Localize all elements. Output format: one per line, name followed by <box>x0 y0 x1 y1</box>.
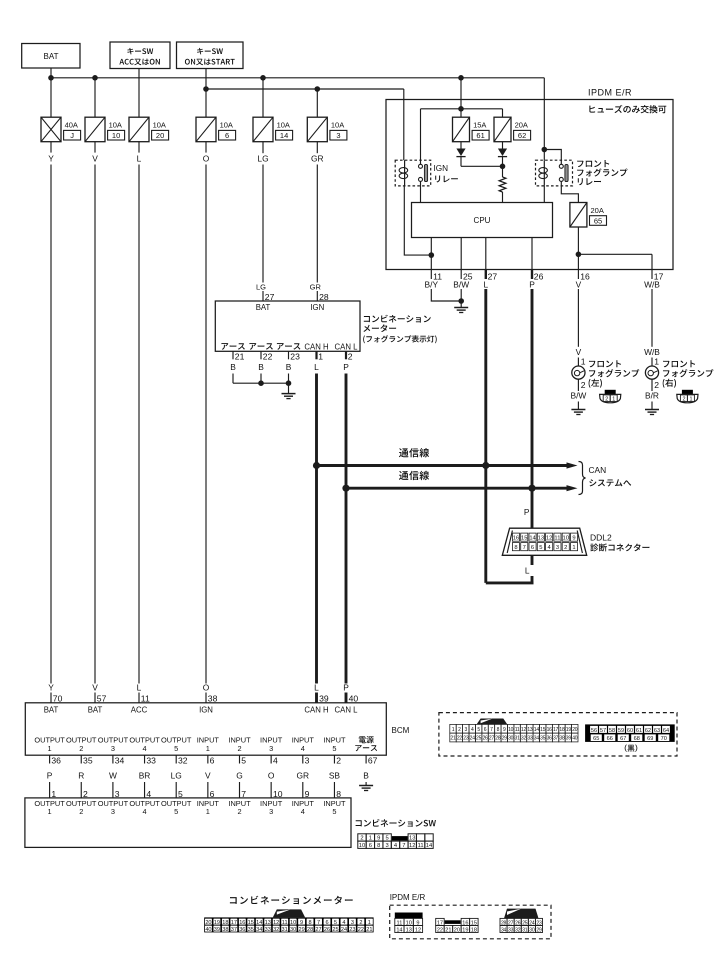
note fuses-only <box>589 105 666 113</box>
svg-text:31: 31 <box>522 927 528 933</box>
wire riser fuse 3 <box>316 89 318 117</box>
svg-text:2: 2 <box>79 807 83 816</box>
label meter IGN <box>310 303 324 312</box>
wire CAN H meter down <box>315 374 318 684</box>
svg-text:Y: Y <box>48 682 54 692</box>
svg-text:Y: Y <box>48 153 54 163</box>
label BCM bottom row <box>34 736 377 753</box>
svg-text:32: 32 <box>273 927 279 933</box>
svg-text:9: 9 <box>572 536 575 542</box>
svg-text:36: 36 <box>547 736 553 742</box>
svg-text:V: V <box>576 347 582 357</box>
label meter CAN L <box>335 342 359 351</box>
connector IPDM A <box>395 913 423 934</box>
lamp front fog left <box>570 289 586 410</box>
svg-text:22: 22 <box>457 736 463 742</box>
svg-text:P: P <box>529 280 535 290</box>
svg-text:2: 2 <box>237 807 241 816</box>
svg-text:3: 3 <box>269 744 273 753</box>
svg-text:33: 33 <box>508 927 514 933</box>
svg-text:L: L <box>314 682 319 692</box>
svg-text:W/B: W/B <box>644 347 660 357</box>
svg-text:22: 22 <box>437 927 443 933</box>
svg-text:12: 12 <box>521 727 527 733</box>
svg-text:23: 23 <box>290 352 300 362</box>
svg-text:28: 28 <box>319 292 329 302</box>
svg-text:61: 61 <box>636 728 642 734</box>
svg-text:ACC: ACC <box>131 705 148 714</box>
svg-text:8: 8 <box>309 920 312 926</box>
svg-text:33: 33 <box>527 736 533 742</box>
wire Y to BCM <box>48 142 54 684</box>
svg-text:IGN: IGN <box>434 164 449 173</box>
wire IGN contact feed <box>420 109 422 164</box>
svg-text:2: 2 <box>79 744 83 753</box>
wire fuse14 to meter <box>262 142 264 283</box>
svg-text:3: 3 <box>351 920 354 926</box>
svg-text:13: 13 <box>527 727 533 733</box>
svg-text:B/Y: B/Y <box>425 280 439 290</box>
svg-text:J: J <box>70 131 74 140</box>
svg-text:10A: 10A <box>153 121 166 130</box>
svg-text:LG: LG <box>171 771 182 781</box>
svg-text:10A: 10A <box>277 121 290 130</box>
svg-text:4: 4 <box>301 744 305 753</box>
svg-text:1: 1 <box>206 807 210 816</box>
svg-text:19: 19 <box>214 920 220 926</box>
svg-text:L: L <box>314 362 319 372</box>
svg-text:40: 40 <box>349 694 359 704</box>
svg-text:27: 27 <box>489 736 495 742</box>
fuse 10A 6 <box>196 117 236 142</box>
svg-text:9: 9 <box>300 920 303 926</box>
connector IPDM C <box>500 909 543 934</box>
svg-text:6: 6 <box>484 727 487 733</box>
svg-text:DDL2: DDL2 <box>590 533 612 543</box>
wire B/Y to ground <box>431 289 461 301</box>
svg-text:36: 36 <box>51 756 61 766</box>
fuse 10A 10 <box>85 117 125 142</box>
svg-text:14: 14 <box>256 920 262 926</box>
svg-text:29: 29 <box>502 736 508 742</box>
svg-text:LG: LG <box>257 153 268 163</box>
svg-text:1: 1 <box>612 396 615 402</box>
node bus2-fuse6 <box>203 86 209 92</box>
svg-text:8: 8 <box>377 843 380 849</box>
svg-text:18: 18 <box>559 727 565 733</box>
svg-text:1: 1 <box>572 545 575 551</box>
svg-text:1: 1 <box>654 356 659 366</box>
label meter earth1 <box>221 343 245 350</box>
svg-text:3: 3 <box>269 807 273 816</box>
svg-text:SB: SB <box>329 771 341 781</box>
node bus1-fuse10 <box>92 75 98 81</box>
ground BCM <box>359 786 373 791</box>
svg-text:28: 28 <box>495 736 501 742</box>
wire B/W to ground <box>458 289 464 308</box>
svg-text:2: 2 <box>605 396 608 402</box>
svg-text:13: 13 <box>538 536 544 542</box>
svg-text:39: 39 <box>566 736 572 742</box>
svg-text:CAN L: CAN L <box>335 342 359 351</box>
svg-text:1: 1 <box>581 356 586 366</box>
svg-text:17: 17 <box>553 727 559 733</box>
svg-text:58: 58 <box>609 728 615 734</box>
label tsushin1 <box>399 448 429 457</box>
svg-text:16: 16 <box>239 920 245 926</box>
wire IGN bus <box>206 88 404 90</box>
ground fog right <box>645 410 659 415</box>
svg-text:GR: GR <box>297 771 310 781</box>
svg-text:O: O <box>203 682 210 692</box>
svg-text:IGN: IGN <box>310 303 324 312</box>
fusible link 40A J <box>41 117 81 142</box>
wire CAN L to DDL2 <box>524 488 532 528</box>
svg-text:34: 34 <box>534 736 540 742</box>
svg-text:IPDM E/R: IPDM E/R <box>390 893 426 902</box>
svg-text:LG: LG <box>256 282 266 291</box>
svg-text:35: 35 <box>83 756 93 766</box>
pin 25 B/W <box>453 270 472 290</box>
svg-text:12: 12 <box>273 920 279 926</box>
svg-text:4: 4 <box>142 807 146 816</box>
pin BCM 11 <box>137 682 150 703</box>
svg-text:16: 16 <box>580 271 590 281</box>
wire CPU pin27 <box>485 238 487 270</box>
svg-text:15: 15 <box>521 536 527 542</box>
connector BCM white <box>450 719 578 742</box>
wire riser fuses 61/62 <box>421 78 503 117</box>
svg-text:2: 2 <box>581 380 586 390</box>
svg-text:10: 10 <box>563 536 569 542</box>
svg-text:1: 1 <box>452 727 455 733</box>
wire CAN H ipdm down <box>484 289 487 466</box>
unit IPDM E/R <box>386 100 673 270</box>
svg-text:67: 67 <box>368 756 378 766</box>
svg-text:5: 5 <box>539 545 542 551</box>
label CAN system <box>589 465 632 487</box>
wire fuse62 to diode <box>502 142 504 149</box>
svg-text:1: 1 <box>48 807 52 816</box>
svg-text:R: R <box>78 771 84 781</box>
svg-text:12: 12 <box>546 536 552 542</box>
svg-text:26: 26 <box>324 927 330 933</box>
svg-text:W: W <box>109 771 117 781</box>
pin 27 L <box>483 270 497 290</box>
svg-text:2: 2 <box>359 920 362 926</box>
svg-text:23: 23 <box>463 736 469 742</box>
svg-text:10: 10 <box>112 131 120 140</box>
svg-text:13: 13 <box>265 920 271 926</box>
svg-text:14: 14 <box>534 727 540 733</box>
svg-text:18: 18 <box>471 927 477 933</box>
svg-text:16: 16 <box>513 536 519 542</box>
ground IPDM <box>454 308 468 313</box>
svg-text:7: 7 <box>317 920 320 926</box>
connector DDL2 <box>502 528 586 555</box>
label meter earth3 <box>277 343 301 350</box>
svg-text:62: 62 <box>518 131 526 140</box>
label DDL2 <box>590 533 649 552</box>
node bus2-fuse3 <box>315 86 321 92</box>
svg-text:25: 25 <box>476 736 482 742</box>
connector combi meter <box>204 909 373 933</box>
svg-text:BCM: BCM <box>392 726 410 735</box>
pin 17 W/B <box>644 270 663 290</box>
svg-text:CAN: CAN <box>589 465 607 475</box>
wire IGN contact to CPU <box>420 181 422 202</box>
fuse 20A 65 <box>570 203 607 228</box>
svg-text:8: 8 <box>514 545 517 551</box>
svg-text:34: 34 <box>115 756 125 766</box>
svg-text:3: 3 <box>305 756 310 766</box>
svg-text:16: 16 <box>547 727 553 733</box>
diode D1 <box>456 149 465 157</box>
svg-text:5: 5 <box>174 807 178 816</box>
svg-text:35: 35 <box>248 927 254 933</box>
svg-text:10: 10 <box>508 727 514 733</box>
pin 28 meter <box>310 282 329 302</box>
svg-text:24: 24 <box>470 736 476 742</box>
svg-text:60: 60 <box>627 728 633 734</box>
svg-text:9: 9 <box>503 727 506 733</box>
svg-text:38: 38 <box>208 694 218 704</box>
svg-text:69: 69 <box>647 736 653 742</box>
label IPDM bottom <box>390 893 426 902</box>
wires BCM to combi SW <box>50 782 342 799</box>
svg-text:26: 26 <box>534 271 544 281</box>
svg-text:11: 11 <box>554 536 560 542</box>
wire ACC to fuse 20 <box>138 69 140 118</box>
svg-text:14: 14 <box>426 843 433 849</box>
svg-text:11: 11 <box>141 694 150 704</box>
wire CPU pin11 <box>429 238 435 270</box>
wire BAT bus <box>51 77 544 79</box>
svg-text:20A: 20A <box>591 206 604 215</box>
pin BCM 40 <box>343 682 358 703</box>
svg-text:15: 15 <box>248 920 254 926</box>
svg-text:20: 20 <box>572 727 578 733</box>
svg-text:5: 5 <box>174 744 178 753</box>
svg-text:13: 13 <box>406 927 412 933</box>
svg-text:BR: BR <box>139 771 151 781</box>
fuse 10A 3 <box>307 117 347 142</box>
label meter earth2 <box>249 343 273 350</box>
svg-text:W/B: W/B <box>644 280 660 290</box>
unit combination meter <box>215 301 360 351</box>
svg-text:57: 57 <box>600 728 606 734</box>
pin 27 meter <box>256 282 275 302</box>
CPU U1 <box>412 203 553 238</box>
node bus1-BAT <box>48 75 54 81</box>
svg-text:67: 67 <box>620 736 626 742</box>
icon fog right connector <box>677 390 698 403</box>
svg-text:8: 8 <box>497 727 500 733</box>
wire fuse61 to diode <box>460 142 462 149</box>
svg-text:P: P <box>47 771 53 781</box>
svg-text:B: B <box>363 771 369 781</box>
svg-text:66: 66 <box>607 736 613 742</box>
svg-text:29: 29 <box>298 927 304 933</box>
wire CAN line1 <box>313 462 578 469</box>
ground fog left <box>571 410 585 415</box>
svg-text:6: 6 <box>531 545 534 551</box>
lamp front fog right <box>644 289 660 410</box>
svg-text:6: 6 <box>325 920 328 926</box>
svg-text:G: G <box>236 771 243 781</box>
pin 16 V <box>576 270 590 290</box>
svg-text:V: V <box>92 682 98 692</box>
svg-text:27: 27 <box>265 292 275 302</box>
wire V to BCM <box>92 142 98 684</box>
svg-text:P: P <box>343 362 349 372</box>
svg-text:57: 57 <box>97 694 107 704</box>
svg-text:V: V <box>576 280 582 290</box>
label meter BAT <box>256 303 271 312</box>
svg-text:5: 5 <box>332 807 336 816</box>
svg-text:20: 20 <box>156 131 164 140</box>
label GR <box>311 153 324 163</box>
svg-text:5: 5 <box>241 756 246 766</box>
svg-text:3: 3 <box>336 131 340 140</box>
svg-text:10: 10 <box>359 843 365 849</box>
svg-text:1: 1 <box>206 744 210 753</box>
svg-text:L: L <box>137 682 142 692</box>
svg-text:22: 22 <box>358 927 364 933</box>
svg-text:38: 38 <box>559 736 565 742</box>
svg-text:4: 4 <box>301 807 305 816</box>
svg-text:5: 5 <box>334 920 337 926</box>
svg-text:O: O <box>268 771 275 781</box>
svg-text:65: 65 <box>594 216 602 225</box>
svg-text:68: 68 <box>634 736 640 742</box>
node bus1-fuse61 <box>458 75 464 81</box>
svg-text:5: 5 <box>477 727 480 733</box>
svg-text:12: 12 <box>415 927 421 933</box>
svg-text:14: 14 <box>529 536 536 542</box>
svg-text:15: 15 <box>540 727 546 733</box>
svg-text:BAT: BAT <box>88 705 103 714</box>
unit combination SW <box>25 798 351 848</box>
svg-text:3: 3 <box>111 807 115 816</box>
svg-text:IPDM E/R: IPDM E/R <box>588 88 632 98</box>
connector BCM black <box>585 724 675 742</box>
svg-text:10A: 10A <box>331 121 344 130</box>
svg-text:61: 61 <box>476 131 484 140</box>
svg-text:35: 35 <box>540 736 546 742</box>
svg-text:11: 11 <box>282 920 288 926</box>
wire DDL2 L return <box>486 466 534 583</box>
svg-text:3: 3 <box>556 545 559 551</box>
svg-text:11: 11 <box>515 727 520 733</box>
label combi SW rows <box>34 799 346 816</box>
wire fog contact to fuse65 <box>561 181 578 202</box>
pin 26 P <box>529 270 543 290</box>
wire BAT to fuse J <box>50 68 52 117</box>
svg-text:B/W: B/W <box>570 391 586 401</box>
svg-text:BAT: BAT <box>44 705 59 714</box>
label combination SW <box>356 819 436 827</box>
svg-text:7: 7 <box>490 727 493 733</box>
svg-text:59: 59 <box>618 728 624 734</box>
wire riser fog relay <box>542 78 562 164</box>
svg-text:20: 20 <box>454 927 460 933</box>
pin 23 meter <box>286 351 300 372</box>
svg-text:B: B <box>286 362 292 372</box>
wire riser fuse 14 <box>262 78 264 117</box>
svg-text:L: L <box>483 280 488 290</box>
label unit meter <box>363 315 437 344</box>
svg-text:37: 37 <box>231 927 237 933</box>
svg-text:2: 2 <box>336 756 341 766</box>
svg-text:P: P <box>343 682 349 692</box>
svg-text:O: O <box>203 153 210 163</box>
connector IPDM B <box>436 918 478 933</box>
svg-text:BAT: BAT <box>44 52 59 61</box>
fuse 10A 20 <box>129 117 169 142</box>
label fog right <box>663 360 714 388</box>
diode D2 <box>498 149 507 157</box>
fuse 15A 61 <box>453 117 490 142</box>
wire CAN line2 <box>342 485 577 492</box>
label fog left <box>589 360 640 388</box>
pin BCM 38 <box>203 682 218 703</box>
svg-text:4: 4 <box>142 744 146 753</box>
svg-text:2: 2 <box>654 380 659 390</box>
svg-text:14: 14 <box>280 131 288 140</box>
svg-text:IGN: IGN <box>199 705 213 714</box>
wire B to ground <box>365 782 367 786</box>
svg-text:10A: 10A <box>220 121 233 130</box>
svg-text:34: 34 <box>501 927 507 933</box>
brace CAN <box>579 462 586 495</box>
icon fog left connector <box>600 390 621 403</box>
wire riser fuse 10 <box>94 78 96 117</box>
pin BCM 70 <box>48 682 62 703</box>
label tsushin2 <box>399 471 429 480</box>
pin 1 meter CAN H <box>314 351 323 372</box>
svg-text:30: 30 <box>508 736 514 742</box>
wire CPU pin26 <box>531 238 533 270</box>
svg-text:10A: 10A <box>109 121 122 130</box>
svg-text:31: 31 <box>282 927 288 933</box>
svg-text:4: 4 <box>342 920 345 926</box>
svg-text:7: 7 <box>402 843 405 849</box>
svg-text:19: 19 <box>566 727 572 733</box>
pin 2 meter CAN L <box>343 351 353 372</box>
box IPDM connectors <box>390 905 551 939</box>
wire O to BCM <box>203 142 210 684</box>
pins BCM bottom <box>47 755 378 780</box>
svg-text:29: 29 <box>536 927 542 933</box>
wire fog coil to CPU <box>543 186 545 203</box>
resistor pull <box>499 166 506 202</box>
node bus1-fuse14 <box>260 75 266 81</box>
svg-text:5: 5 <box>332 744 336 753</box>
svg-text:6: 6 <box>225 131 229 140</box>
svg-text:40: 40 <box>572 736 578 742</box>
svg-text:4: 4 <box>471 727 474 733</box>
svg-text:22: 22 <box>263 352 273 362</box>
box BCM connectors <box>439 713 677 756</box>
svg-text:14: 14 <box>396 927 402 933</box>
svg-text:6: 6 <box>369 843 372 849</box>
svg-text:CAN L: CAN L <box>335 705 359 714</box>
svg-text:CAN H: CAN H <box>304 342 328 351</box>
label BCM <box>392 726 410 735</box>
svg-text:1: 1 <box>48 744 52 753</box>
fuse 10A 14 <box>253 117 293 142</box>
